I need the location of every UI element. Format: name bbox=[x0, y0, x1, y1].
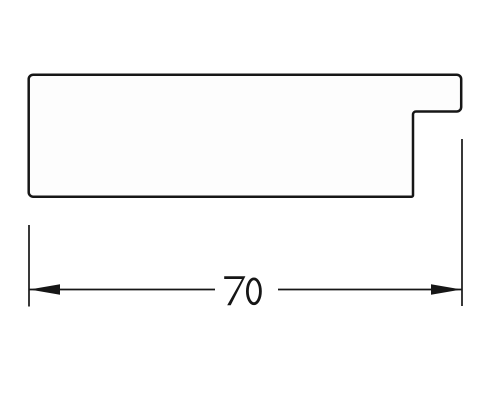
right arrowhead bbox=[431, 284, 462, 295]
right extension line bbox=[461, 139, 463, 306]
dimension text digit 7 bbox=[224, 276, 245, 305]
moulding profile outline bbox=[29, 75, 462, 197]
dimension text digit 0 bbox=[247, 279, 260, 304]
left extension line bbox=[28, 225, 30, 307]
dimension line right segment bbox=[278, 289, 462, 291]
dimension line left segment bbox=[30, 289, 216, 291]
left arrowhead bbox=[30, 284, 61, 295]
